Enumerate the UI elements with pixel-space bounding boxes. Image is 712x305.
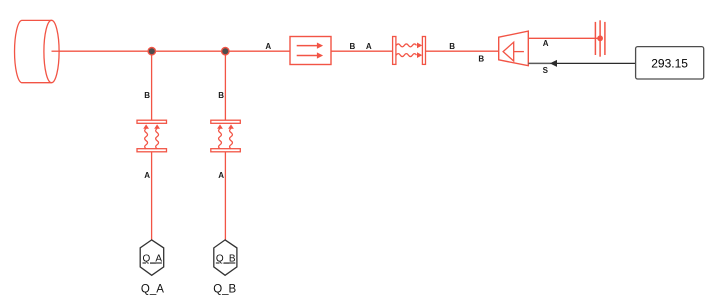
wire: conv block A port down to Q_B hexagon [224, 152, 226, 241]
svg-text:A: A [543, 39, 549, 48]
svg-text:A: A [366, 42, 372, 51]
connection port hexagon Q_A [140, 240, 164, 275]
convective heat transfer block (right): wavy arrows [219, 129, 233, 149]
svg-text:S: S [543, 66, 549, 75]
svg-text:293.15: 293.15 [651, 56, 688, 70]
svg-text:Q_A: Q_A [141, 283, 164, 295]
svg-text:B: B [350, 42, 356, 51]
signal wire from constant to S with arrowhead [557, 62, 636, 64]
svg-text:B: B [144, 91, 150, 100]
svg-text:A: A [218, 171, 224, 180]
svg-text:Q_B: Q_B [213, 283, 236, 295]
wire: conv block A port down to Q_A hexagon [151, 152, 153, 241]
wire: square block to radiative block [331, 50, 393, 52]
wire: cylinder to mass-flow block [59, 50, 290, 52]
svg-text:B: B [478, 55, 484, 64]
signal port stub from S [528, 62, 551, 64]
heat flow rate source block (square with two arrows) [290, 37, 331, 65]
convective heat transfer block (left): plates [137, 120, 167, 152]
connection port hexagon Q_B [214, 240, 237, 275]
thermal reference [595, 20, 605, 56]
wire: temperature source A to thermal reference [528, 37, 600, 39]
svg-text:B: B [449, 42, 455, 51]
radiative heat transfer block: wavy arrows [396, 44, 416, 57]
svg-text:A: A [144, 171, 150, 180]
wire: vertical from junction 1 down to conv block B port [151, 51, 153, 120]
thermal mass (cylinder) [15, 20, 60, 82]
wire: vertical from junction 2 down to conv block B port [224, 51, 226, 120]
constant block 293.15 [636, 47, 704, 79]
junction node 1 [147, 47, 156, 56]
wire: radiative block to temperature source [426, 50, 499, 52]
junction node 2 [221, 47, 230, 56]
convective heat transfer block (right): plates [211, 120, 241, 152]
svg-text:Q_A: Q_A [142, 254, 162, 265]
svg-text:A: A [265, 42, 271, 51]
svg-text:Q_B: Q_B [216, 254, 236, 265]
controlled temperature source (trapezoid) [499, 31, 529, 66]
radiative heat transfer block: plates [393, 37, 426, 65]
convective heat transfer block (left): wavy arrows [145, 129, 159, 149]
svg-text:B: B [218, 91, 224, 100]
